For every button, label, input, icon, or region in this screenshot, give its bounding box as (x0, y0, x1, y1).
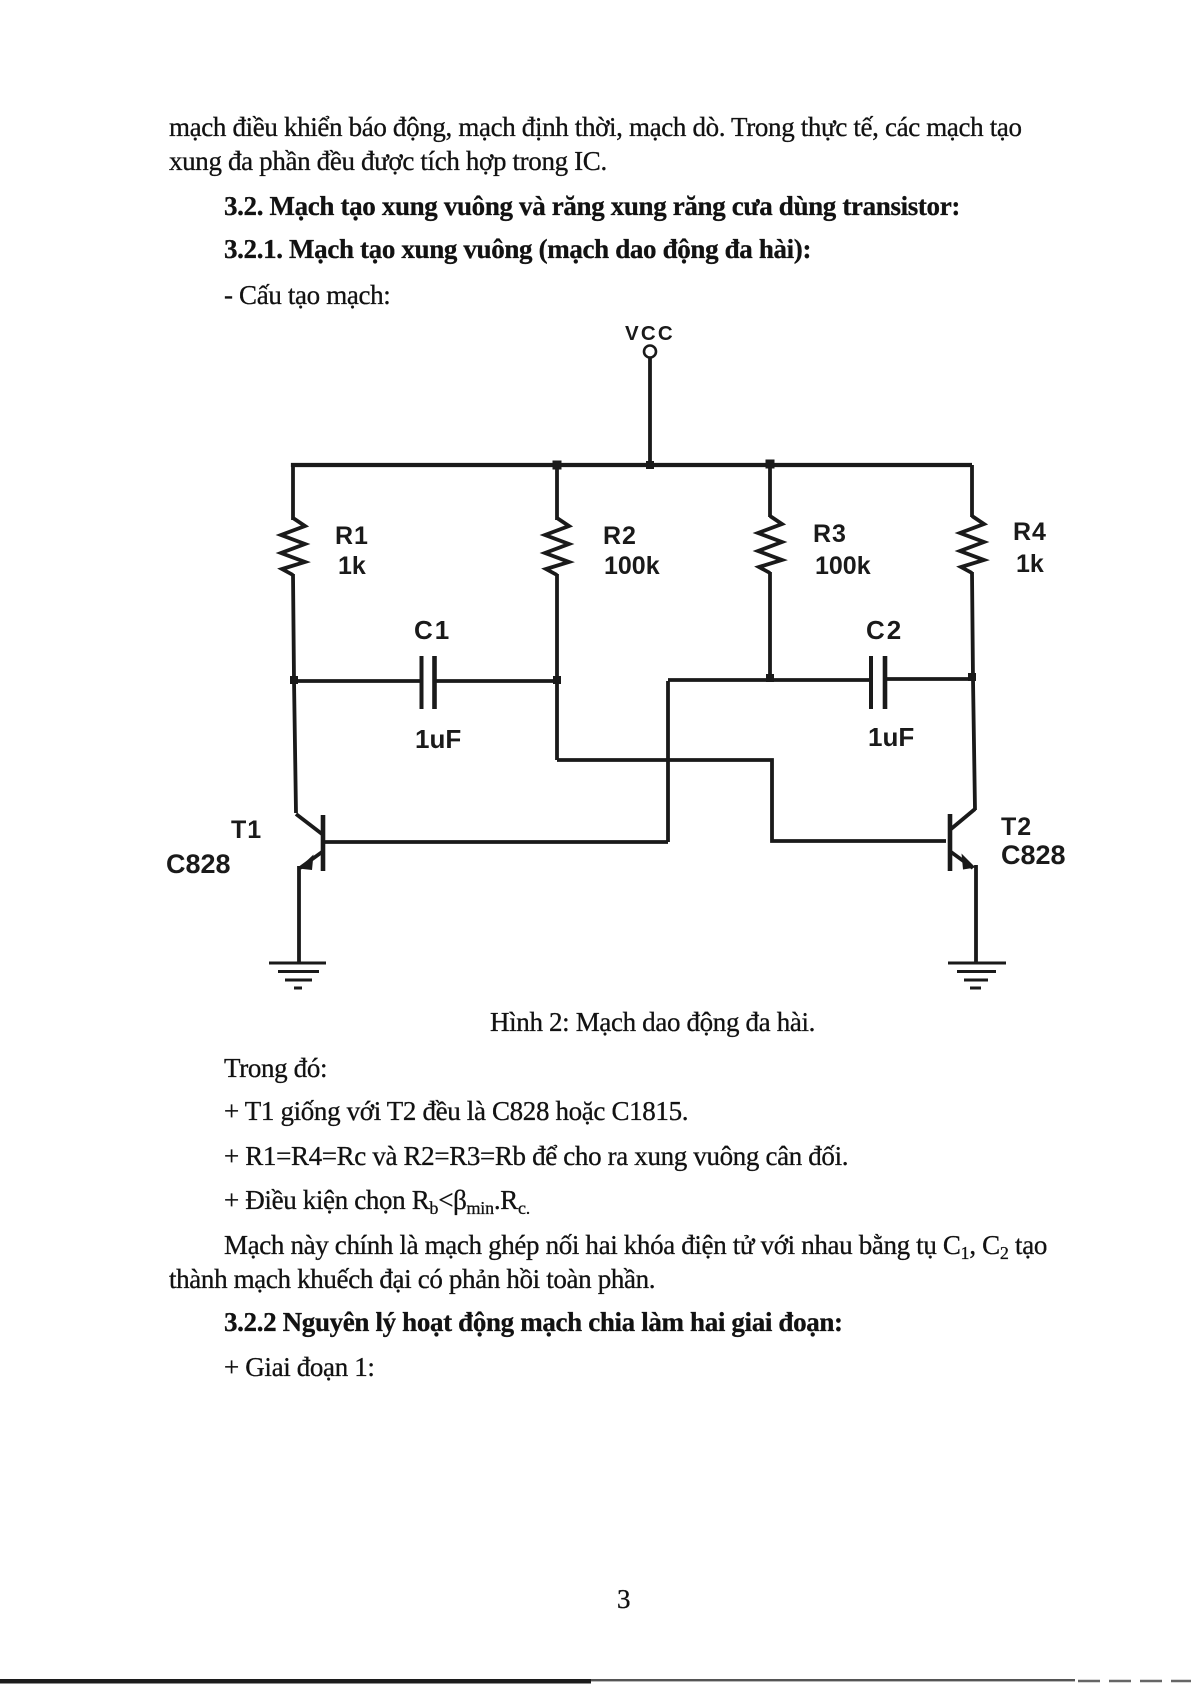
transistor T1 (296, 814, 323, 962)
svg-text:T2: T2 (1001, 813, 1032, 841)
capacitor C1 (422, 656, 435, 709)
ground (T1) (269, 963, 326, 988)
label C2 (866, 615, 903, 645)
svg-text:T1: T1 (231, 816, 262, 844)
node bus-VCC junction (646, 461, 654, 469)
label T2 (1001, 813, 1032, 841)
label 1uF (C1) (415, 724, 461, 754)
wire R1 to T1 collector (293, 574, 296, 813)
wire R4 to T2 collector (972, 572, 975, 810)
svg-text:1k: 1k (338, 552, 366, 580)
node bus-R3 junction (766, 460, 775, 469)
label 100k (R3) (815, 552, 871, 580)
node C2-right junction (968, 673, 976, 681)
node bus-R2 junction (553, 461, 562, 470)
footer rule right (591, 1679, 1075, 1681)
capacitor C2 (871, 656, 885, 709)
wire R2-node to T2 base (cross coupling) (557, 760, 946, 841)
label R2 (603, 522, 637, 550)
resistor R1 (281, 518, 305, 575)
svg-text:VCC: VCC (625, 322, 675, 345)
svg-text:R3: R3 (813, 520, 847, 548)
svg-text:C828: C828 (166, 849, 231, 879)
label R3 (813, 520, 847, 548)
label VCC (625, 322, 675, 345)
svg-text:R2: R2 (603, 522, 637, 550)
wire C2 left (668, 678, 869, 682)
wire C1 right (436, 679, 557, 683)
svg-text:R1: R1 (335, 522, 369, 550)
footer rule dashes (1078, 1680, 1191, 1682)
svg-text:C2: C2 (866, 615, 903, 645)
wire R1 branch top (291, 465, 295, 520)
wire R4 branch top (970, 465, 974, 517)
node C2-left junction (766, 674, 774, 682)
wire C1 left (294, 679, 420, 683)
label R1 (335, 522, 369, 550)
label 1k (R4) (1016, 550, 1044, 578)
resistor R4 (960, 516, 984, 573)
wire R3 to C2 node (768, 572, 772, 680)
wire top bus (293, 465, 972, 467)
label C828 (T1) (166, 849, 231, 879)
svg-text:C828: C828 (1001, 840, 1066, 870)
wire T1 base (324, 840, 668, 844)
wire VCC drop (648, 358, 652, 465)
svg-text:1uF: 1uF (868, 722, 914, 752)
label T1 (231, 816, 262, 844)
svg-text:100k: 100k (604, 552, 660, 580)
wire C2 to T1 base vertical (666, 681, 670, 842)
label 1uF (C2) (868, 722, 914, 752)
footer rule left (0, 1679, 591, 1684)
resistor R3 (758, 516, 782, 573)
label C828 (T2) (1001, 840, 1066, 870)
svg-text:R4: R4 (1013, 518, 1047, 546)
label R4 (1013, 518, 1047, 546)
node C1-left junction (290, 676, 298, 684)
label 100k (R2) (604, 552, 660, 580)
svg-text:C1: C1 (414, 615, 451, 645)
svg-text:1uF: 1uF (415, 724, 461, 754)
VCC terminal circle (644, 346, 656, 358)
wire R2 to C1 node (555, 574, 559, 760)
label 1k (R1) (338, 552, 366, 580)
wire R2 branch top (555, 465, 559, 520)
node C1-right junction (553, 676, 561, 684)
transistor T2 (950, 809, 976, 962)
svg-text:100k: 100k (815, 552, 871, 580)
resistor R2 (545, 518, 569, 575)
ground (T2) (948, 963, 1006, 988)
svg-text:1k: 1k (1016, 550, 1044, 578)
label C1 (414, 615, 451, 645)
wire C2 right (886, 677, 973, 681)
wire R3 branch top (768, 465, 772, 517)
